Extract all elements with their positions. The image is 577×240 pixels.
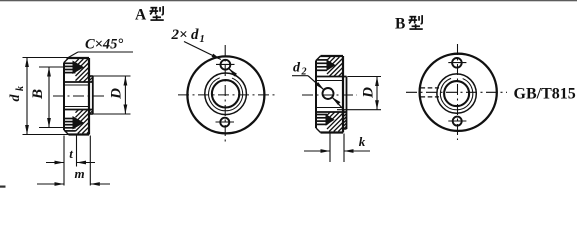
svg-text:1: 1: [200, 34, 205, 45]
svg-text:t: t: [69, 146, 73, 161]
svg-text:D: D: [109, 88, 125, 100]
svg-text:D: D: [361, 87, 377, 99]
svg-text:B: B: [30, 89, 46, 100]
svg-text:d: d: [293, 61, 301, 76]
svg-text:A: A: [135, 7, 147, 24]
svg-text:m: m: [74, 166, 84, 181]
svg-text:d: d: [8, 94, 23, 102]
svg-text:d: d: [191, 27, 199, 43]
svg-text:k: k: [359, 134, 366, 149]
svg-text:2×: 2×: [171, 27, 188, 43]
svg-text:k: k: [15, 86, 26, 91]
svg-text:B: B: [395, 16, 405, 33]
svg-text:C×45°: C×45°: [85, 37, 123, 53]
svg-text:GB/T815: GB/T815: [514, 86, 576, 103]
